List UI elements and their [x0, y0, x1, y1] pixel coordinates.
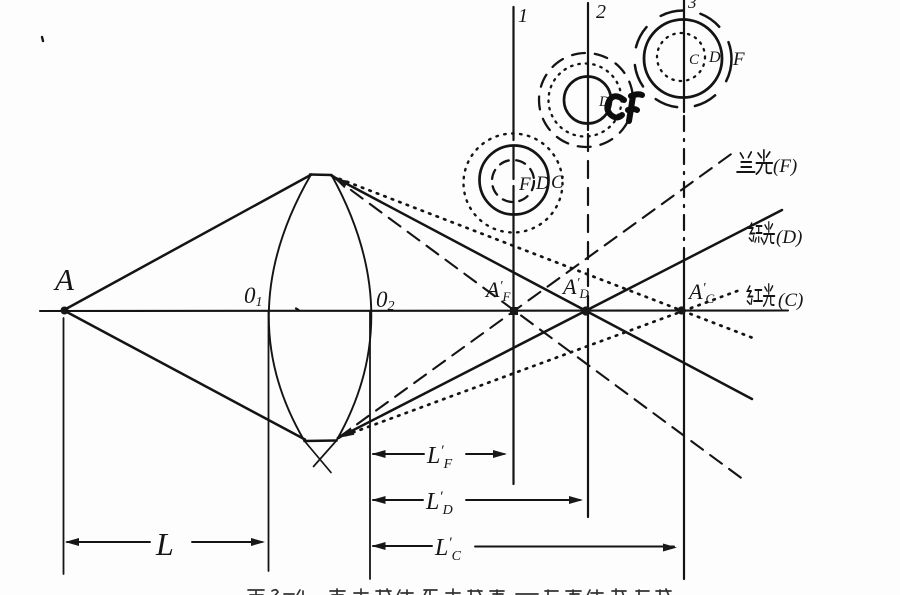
dimension L arrow left head [65, 538, 79, 546]
dimension L'C arrow right head [663, 544, 677, 552]
dashed F ray from lens bottom through A'F [338, 152, 734, 438]
blur circle 3 outer dashed [635, 11, 732, 108]
dashed F ray from lens top through A'F [332, 176, 744, 480]
blur circle group on screen 1: solid circle [480, 146, 549, 215]
svg-text:C: C [689, 52, 700, 68]
lens top edge [310, 173, 332, 176]
dimension L'F line left [373, 453, 424, 455]
lens bottom edge [305, 439, 337, 442]
svg-text:D: D [708, 49, 721, 66]
dimension L'F arrow left head [372, 450, 386, 458]
dotted C ray from lens bottom through A'C [338, 290, 740, 438]
screen line 3 bottom solid [683, 262, 685, 579]
blur circle 2 dotted [549, 64, 622, 137]
blur circle 1 inner dashed [492, 160, 534, 202]
vertical guide below A [63, 318, 65, 574]
svg-text:(F): (F) [773, 156, 797, 177]
label hong-guang(C) red light [747, 284, 774, 306]
dimension L'D line right [466, 499, 580, 501]
screen line 2 top solid [587, 3, 589, 130]
blur circle 3 inner dotted [657, 33, 705, 81]
dimension L'C arrow left head [372, 542, 386, 550]
screen line 2 bottom solid [587, 303, 589, 517]
solid D ray from lens bottom through A'D [338, 210, 782, 438]
svg-text:F: F [518, 174, 531, 195]
arrowhead at lens top exit [332, 174, 348, 188]
svg-text:3: 3 [687, 0, 697, 12]
vertical guide below O1 [268, 311, 270, 571]
bold handwritten CF [607, 94, 642, 121]
svg-text:C: C [551, 172, 564, 193]
dimension L'C line right [475, 546, 674, 548]
blur circle 1 outer dotted [464, 134, 563, 233]
dimension L line left [67, 541, 150, 543]
svg-text:F: F [732, 49, 745, 70]
dimension L'F arrow right head [493, 450, 507, 458]
dimension L line right [192, 541, 262, 543]
screen line 3 top solid [683, 0, 685, 112]
svg-text:A′D: A′D [561, 274, 590, 301]
dotted C ray from lens top through A'C [332, 176, 753, 338]
screen line 3 dash-dot middle [683, 116, 685, 262]
focal point A'C dot [677, 306, 685, 314]
svg-text:A: A [53, 262, 75, 297]
dimension L'D arrow right head [569, 496, 583, 504]
blur circle 2 outer dashed [539, 53, 633, 147]
optical axis [40, 309, 788, 312]
svg-text:L′F: L′F [426, 443, 453, 472]
svg-text:L′C: L′C [434, 535, 462, 564]
lens left arc lower extension [305, 441, 332, 473]
svg-text:(D): (D) [776, 227, 802, 248]
blur circle group on screen 3: solid circle [644, 20, 722, 98]
svg-text:A′F: A′F [484, 277, 512, 304]
dimension L arrow right head [251, 538, 265, 546]
svg-text:01: 01 [244, 283, 263, 310]
label lü-guang(D) green light [749, 222, 774, 244]
svg-text:2: 2 [596, 1, 606, 23]
lens right arc [332, 175, 372, 441]
screen line 2 dashed middle [587, 134, 589, 303]
ink speck top-left [42, 37, 43, 41]
dimension L'D arrow left head [372, 496, 386, 504]
dimension L'C line left [373, 545, 432, 547]
axis tick near lens center [296, 309, 299, 311]
focal point A'D dot [581, 306, 590, 315]
blur circle group on screen 2: solid circle [564, 77, 611, 124]
arrowhead at lens bottom exit [338, 427, 354, 441]
focal point A'F square marker [510, 307, 518, 315]
svg-text:L: L [155, 526, 174, 562]
lens left arc [269, 175, 311, 442]
lens right arc lower extension [314, 441, 337, 467]
svg-text:(C): (C) [778, 290, 803, 311]
svg-text:02: 02 [376, 287, 395, 314]
svg-text:L′D: L′D [425, 489, 453, 518]
vertical guide below O2 [369, 311, 371, 579]
dimension L'F line right [466, 453, 504, 455]
ray A to lens top [64, 175, 312, 311]
screen line 1 [512, 7, 514, 484]
svg-text:1: 1 [518, 5, 528, 27]
point A dot [61, 307, 69, 315]
caption character tops (clipped by page bottom) [248, 589, 671, 595]
ray A to lens bottom [64, 311, 305, 440]
solid D ray from lens top through A'D [332, 176, 752, 399]
dimension L'D line left [373, 499, 423, 501]
label lan-guang(F) blue light [737, 150, 772, 174]
svg-text:A′C: A′C [687, 279, 715, 306]
svg-text:D: D [535, 173, 550, 194]
